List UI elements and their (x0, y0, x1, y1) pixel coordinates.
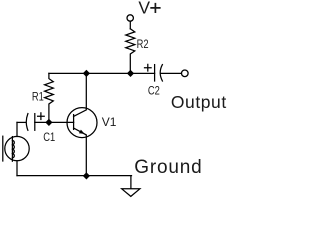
svg-text:R1: R1 (32, 90, 44, 103)
svg-text:R2: R2 (137, 38, 149, 51)
svg-text:V: V (138, 0, 150, 17)
svg-text:V1: V1 (102, 115, 117, 129)
svg-text:Output: Output (171, 92, 227, 112)
svg-text:C1: C1 (43, 131, 55, 144)
svg-text:Ground: Ground (134, 157, 202, 178)
svg-text:C2: C2 (148, 84, 160, 97)
